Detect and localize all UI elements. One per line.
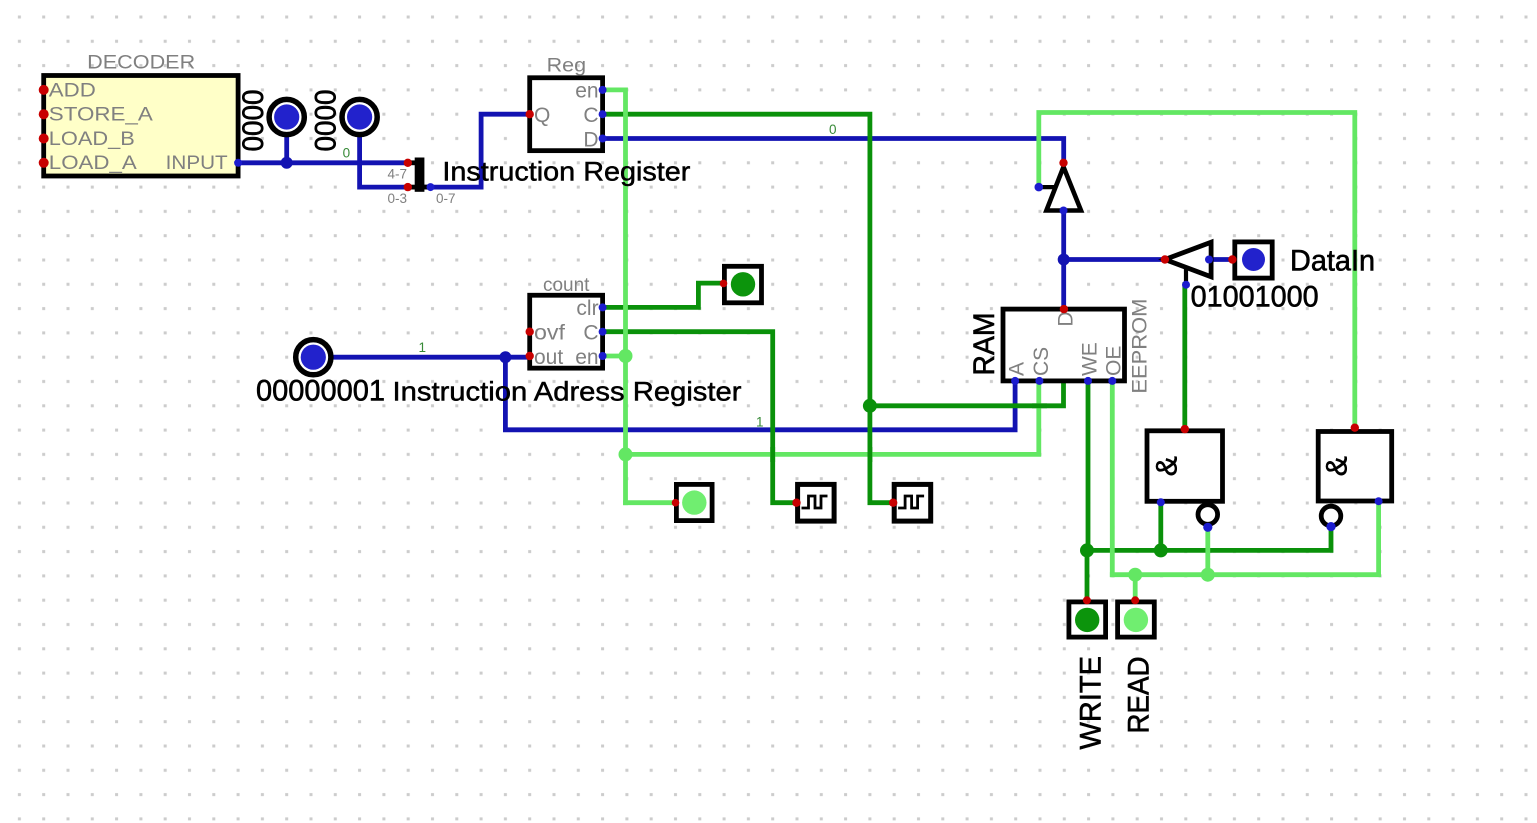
svg-text:EEPROM: EEPROM [1128, 299, 1151, 394]
svg-text:out: out [534, 346, 563, 369]
wire count clr to LED [603, 283, 724, 307]
svg-text:Instruction Adress Register: Instruction Adress Register [393, 377, 742, 407]
svg-text:READ: READ [1122, 657, 1155, 734]
splitter S1 [387, 158, 455, 206]
svg-text:LOAD_B: LOAD_B [49, 129, 135, 150]
LED dark (count clr) [720, 266, 762, 303]
svg-text:count: count [543, 275, 590, 296]
svg-text:0-7: 0-7 [436, 191, 456, 206]
LED light (en) [672, 484, 712, 520]
junction en-CS [619, 447, 633, 461]
svg-text:en: en [575, 346, 598, 369]
svg-text:0: 0 [343, 146, 351, 161]
counter count [526, 275, 607, 369]
svg-text:ADD: ADD [49, 80, 96, 101]
wire input2 to splitter 0-3 [360, 125, 408, 187]
wire Reg en down [603, 90, 626, 503]
svg-text:DataIn: DataIn [1290, 245, 1375, 278]
junction IAR out [499, 351, 511, 363]
wire LED light stem [626, 500, 677, 505]
svg-text:C: C [583, 104, 598, 127]
wire overlay crossing 1 [770, 447, 775, 462]
svg-text:clr: clr [576, 297, 598, 320]
and gate right [1318, 424, 1392, 532]
svg-text:WE: WE [1078, 342, 1101, 376]
svg-text:0-3: 0-3 [387, 191, 407, 206]
svg-text:DECODER: DECODER [87, 53, 195, 74]
wire buffer input bus [1061, 210, 1066, 260]
wire data bus to driver [1064, 257, 1164, 262]
wire overlay crossing 2 [868, 447, 873, 462]
wire data bus to RAM D [1061, 260, 1066, 310]
wire RAM WE down [1086, 381, 1091, 551]
tri-state driver left (DataIn) [1161, 242, 1213, 289]
svg-text:Instruction Register: Instruction Register [442, 157, 690, 187]
LED READ [1118, 596, 1155, 637]
wire WE rail [1087, 527, 1331, 550]
wire count en stub [603, 354, 626, 359]
junction OE-gate [1201, 568, 1215, 582]
input probe 1 [237, 90, 304, 152]
junction C-RAM [863, 399, 877, 413]
svg-text:0000: 0000 [310, 90, 343, 152]
input probe 2 [310, 90, 378, 152]
wire splitter to Reg Q [425, 114, 530, 187]
wire RAM OE down [1110, 381, 1115, 575]
svg-text:C: C [583, 322, 598, 345]
svg-text:D: D [1054, 311, 1077, 326]
wire READ LED stem [1133, 575, 1138, 599]
svg-text:WRITE: WRITE [1074, 656, 1107, 750]
clock 2 [889, 484, 931, 521]
junction bus 1 [281, 157, 293, 169]
wire Reg C net [603, 114, 894, 503]
svg-text:00000001: 00000001 [256, 375, 385, 408]
wire IAR out [318, 355, 530, 360]
IAR output probe [296, 340, 331, 375]
svg-text:D: D [583, 128, 598, 151]
svg-text:&: & [1321, 456, 1354, 476]
register Reg [526, 56, 607, 152]
clock 1 [792, 484, 834, 521]
wire left gate output to driver enable [1185, 285, 1186, 429]
svg-text:OE: OE [1103, 346, 1126, 376]
wire left gate input [1158, 502, 1163, 550]
wire left gate inverted input stem [1205, 528, 1210, 575]
wire Reg D bus [603, 139, 1064, 165]
svg-text:A: A [1006, 362, 1029, 376]
wire WRITE LED stem [1085, 550, 1090, 599]
tri-state buffer up [1035, 159, 1082, 215]
svg-text:01001000: 01001000 [1191, 281, 1319, 314]
wire INPUT bus [238, 160, 408, 165]
junction data bus [1058, 254, 1070, 266]
svg-text:LOAD_A: LOAD_A [49, 153, 137, 174]
svg-text:ovf: ovf [534, 322, 565, 345]
svg-text:Reg: Reg [547, 56, 587, 77]
svg-text:en: en [575, 80, 598, 103]
junction WE-WRITE [1080, 543, 1094, 557]
wire IAR addr down [505, 357, 1015, 430]
junction WE-gate [1154, 543, 1168, 557]
svg-text:1: 1 [419, 340, 427, 355]
svg-text:STORE_A: STORE_A [49, 105, 153, 126]
svg-text:RAM: RAM [968, 312, 1001, 375]
wire DataIn to driver [1211, 257, 1232, 262]
wire OE rail [1112, 503, 1378, 575]
svg-text:1: 1 [756, 415, 764, 430]
svg-text:0000: 0000 [237, 90, 270, 152]
RAM U2 [968, 299, 1152, 394]
decoder U1 [39, 53, 242, 177]
LED WRITE [1069, 596, 1106, 637]
svg-text:0: 0 [829, 122, 837, 137]
wire right gate out to buffer enable [1039, 113, 1355, 430]
wire C branch to RAM bottom [870, 381, 1064, 406]
svg-text:CS: CS [1030, 347, 1053, 376]
junction OE-READ [1128, 568, 1142, 582]
svg-text:&: & [1151, 456, 1184, 476]
svg-text:Q: Q [534, 104, 550, 127]
wire overlay crossing 3 [1032, 403, 1047, 408]
svg-text:4-7: 4-7 [387, 166, 407, 181]
svg-text:INPUT: INPUT [166, 153, 228, 174]
wire input1 stem [284, 125, 289, 163]
junction en-count [619, 349, 633, 363]
wire count C to clock1 [603, 332, 798, 503]
wire CS rail [626, 381, 1039, 455]
and gate left [1147, 425, 1223, 532]
DataIn input [1228, 242, 1272, 278]
